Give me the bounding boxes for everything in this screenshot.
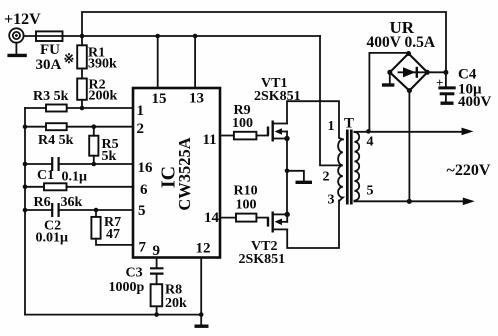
wire R1-R2 <box>81 69 83 79</box>
wire bridge top to pin4 wire <box>369 53 408 131</box>
node R5 bottom <box>92 162 97 167</box>
svg-text:5: 5 <box>138 203 146 219</box>
wire pin6 <box>25 186 133 188</box>
node fuse/R1/top-rail junction <box>80 34 85 39</box>
svg-text:3: 3 <box>328 193 335 208</box>
svg-text:2: 2 <box>137 121 145 137</box>
resistor R7 <box>91 217 100 239</box>
svg-text:0.01μ: 0.01μ <box>36 231 69 246</box>
node pin12/bus <box>199 312 204 317</box>
svg-text:※: ※ <box>64 51 75 66</box>
capacitor C3 <box>150 268 164 273</box>
svg-text:12: 12 <box>196 241 211 257</box>
svg-text:100: 100 <box>236 198 257 213</box>
svg-text:100: 100 <box>232 116 253 131</box>
svg-text:7: 7 <box>139 240 147 256</box>
svg-text:FU: FU <box>40 42 60 58</box>
node VT1 source junction <box>285 169 290 174</box>
svg-text:C4: C4 <box>458 67 477 83</box>
svg-text:+: + <box>436 75 443 90</box>
resistor R3 <box>46 105 67 112</box>
resistor R9 <box>234 132 257 140</box>
svg-text:CW3525A: CW3525A <box>175 137 194 210</box>
wire pin14 to R10 <box>220 217 236 219</box>
svg-text:~220V: ~220V <box>447 162 491 179</box>
pin15 stub <box>157 36 159 88</box>
svg-text:14: 14 <box>204 210 220 226</box>
wire bridge bottom to pin5 wire <box>408 91 410 202</box>
resistor R1 <box>77 45 87 68</box>
arrow output top <box>462 128 474 136</box>
capacitor C4 <box>436 72 456 103</box>
ground at bridge left <box>382 72 395 85</box>
wire pin2 <box>25 126 133 128</box>
primary winding <box>338 139 343 201</box>
svg-text:C3: C3 <box>126 266 143 281</box>
pin9 wire to C3 <box>156 258 158 269</box>
svg-text:1000p: 1000p <box>109 280 145 295</box>
svg-text:+12V: +12V <box>4 11 41 28</box>
pin12 stub <box>200 258 202 315</box>
svg-text:1: 1 <box>328 119 335 134</box>
wire connector to fuse to corner x320 <box>24 35 320 37</box>
node bus/pin2 <box>23 124 28 129</box>
svg-text:R4 5k: R4 5k <box>38 133 74 148</box>
svg-text:C1: C1 <box>37 168 54 183</box>
svg-text:4: 4 <box>367 135 374 150</box>
svg-text:15: 15 <box>152 91 167 107</box>
resistor R4 <box>46 123 67 130</box>
svg-text:R6: R6 <box>34 195 51 210</box>
svg-text:11: 11 <box>203 132 217 148</box>
svg-text:R3 5k: R3 5k <box>33 89 69 104</box>
wire pin1 (left bus to IC pin 1) <box>25 107 133 109</box>
wire secondary pin5 out <box>354 200 465 202</box>
resistor R2 <box>77 79 87 100</box>
svg-text:400V: 400V <box>458 94 492 110</box>
svg-text:20k: 20k <box>165 296 187 311</box>
svg-text:16: 16 <box>138 160 154 176</box>
ground under connector <box>7 43 26 56</box>
svg-text:2: 2 <box>323 170 330 185</box>
node pin5/bridge <box>407 199 412 204</box>
bridge rectifier UR <box>387 51 430 93</box>
wire +12V down to center tap <box>320 36 340 165</box>
svg-text:0.1μ: 0.1μ <box>62 170 88 185</box>
svg-text:200k: 200k <box>89 89 118 104</box>
ground at pin12 <box>195 315 209 327</box>
node bus/pin16 <box>23 162 28 167</box>
wire R7 to pin7 <box>96 239 133 245</box>
node R7 top <box>94 208 99 213</box>
left bus <box>24 108 26 315</box>
ground at VT1 source <box>287 171 312 183</box>
node bridge/C4/rail <box>443 70 448 75</box>
resistor R10 <box>236 214 256 222</box>
node VT2 source <box>285 212 290 217</box>
wire R5 bottom <box>93 156 95 164</box>
svg-text:2SK851: 2SK851 <box>239 252 286 267</box>
wire secondary pin4 out <box>354 131 464 133</box>
node pin4/bridge <box>366 129 371 134</box>
arrow output bottom <box>463 198 475 206</box>
wire VT1 source to VT2 source <box>286 171 288 215</box>
wire C3 to R8 <box>156 274 158 285</box>
transistor VT1 2SK851 <box>268 121 290 171</box>
svg-text:13: 13 <box>189 91 204 107</box>
wire +12V to R1 <box>81 36 83 45</box>
node R2/pin1 <box>80 106 85 111</box>
svg-text:T: T <box>344 116 354 132</box>
svg-text:1: 1 <box>137 103 145 119</box>
svg-text:30A: 30A <box>36 57 62 73</box>
svg-text:47: 47 <box>106 227 120 242</box>
wire R10 to VT2 gate <box>256 217 268 219</box>
capacitor C2 <box>52 203 58 217</box>
wire R7 top <box>95 210 97 217</box>
wire R2 to pin1 wire <box>81 100 83 108</box>
svg-text:36k: 36k <box>61 195 83 210</box>
resistor R6 <box>44 183 67 190</box>
wire pin16 with C1 <box>25 163 133 165</box>
wire R5 top <box>93 127 95 136</box>
fuse FU <box>36 31 63 41</box>
IC U1 CW3525A <box>133 88 220 258</box>
secondary winding <box>354 132 359 201</box>
capacitor C1 <box>52 157 58 171</box>
input connector J1 <box>9 28 23 42</box>
svg-text:5k: 5k <box>102 149 117 164</box>
wire VT1 drain to transformer pin1 <box>287 101 343 139</box>
transformer T <box>338 130 359 205</box>
wire R8 to bottom bus <box>156 306 158 314</box>
wire pin5 with C2 <box>25 209 133 211</box>
top feedback rail <box>82 12 446 72</box>
wire bridge right to C4/top-rail <box>427 71 446 73</box>
node bus/pin5 <box>23 208 28 213</box>
svg-text:6: 6 <box>140 182 148 198</box>
svg-text:390k: 390k <box>88 57 117 72</box>
svg-text:400V 0.5A: 400V 0.5A <box>367 34 436 51</box>
wire VT2 drain to transformer pin3 <box>287 201 339 249</box>
core <box>347 130 351 205</box>
transistor VT2 2SK851 <box>268 212 287 233</box>
node bus/pin6 <box>23 185 28 190</box>
svg-text:R10: R10 <box>234 184 258 199</box>
node R8/bus <box>154 312 159 317</box>
wire pin11 to R9 <box>220 135 234 137</box>
resistor R8 <box>151 284 163 306</box>
resistor R5 <box>89 136 98 156</box>
node R5 top <box>92 124 97 129</box>
pin13 stub <box>194 36 196 88</box>
bottom bus <box>25 314 201 316</box>
svg-text:5: 5 <box>367 184 374 199</box>
wire R9 to VT1 gate <box>256 135 268 137</box>
